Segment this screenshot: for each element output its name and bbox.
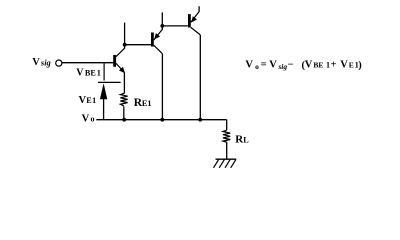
- svg-text:+: +: [331, 60, 337, 71]
- resistor RE1: [120, 73, 127, 120]
- wire Q1 collector to Q2 base: [125, 44, 152, 46]
- transistor Q3 (pnp): [188, 12, 200, 35]
- formula Vo = Vsig - (VBE1 + VE1): [245, 60, 362, 72]
- svg-text:V: V: [269, 60, 277, 71]
- svg-text:L: L: [243, 136, 249, 145]
- svg-text:sig: sig: [277, 62, 287, 71]
- svg-text:−: −: [288, 60, 294, 71]
- transistor Q1 (npn): [113, 48, 125, 73]
- ground: [214, 159, 237, 168]
- svg-text:=: =: [261, 60, 267, 71]
- junction RE1 / rail: [122, 118, 126, 122]
- svg-text:1: 1: [147, 99, 151, 108]
- junction Q1 collector / Q2 base: [123, 43, 127, 47]
- wire Q3 emitter riser: [198, 6, 200, 12]
- label Vsig: [32, 57, 51, 68]
- transistor Q2 (pnp): [151, 29, 162, 53]
- svg-text:E: E: [349, 61, 354, 70]
- junction Q2 emitter / Q3 base: [160, 24, 164, 28]
- VBE1 measure line: [103, 63, 105, 80]
- wire Q2 emitter to Q3 base: [162, 25, 188, 27]
- label Vo: [82, 113, 95, 124]
- junction Q3 collector / rail: [198, 118, 202, 122]
- svg-text:): ): [358, 60, 362, 71]
- svg-text:V: V: [76, 67, 84, 78]
- label RE1: [134, 97, 152, 109]
- output rail: [96, 119, 226, 121]
- label VE1: [79, 95, 97, 106]
- terminal Vsig: [56, 60, 62, 66]
- svg-text:BE: BE: [313, 61, 323, 70]
- svg-text:V: V: [82, 113, 90, 124]
- wire Q2 collector drop: [161, 54, 163, 120]
- svg-text:1: 1: [92, 96, 96, 105]
- label RL: [235, 134, 249, 146]
- svg-text:V: V: [245, 60, 253, 71]
- wire Q3 collector drop: [199, 35, 201, 120]
- VBE1 / VE1 separator line: [98, 81, 121, 83]
- junction Q2 collector / rail: [160, 118, 164, 122]
- svg-text:o: o: [91, 115, 95, 124]
- wire Q1 collector riser: [124, 23, 126, 49]
- svg-text:sig: sig: [40, 58, 52, 68]
- svg-text:V: V: [32, 57, 40, 68]
- label VBE1: [76, 67, 101, 78]
- svg-text:o: o: [255, 62, 259, 71]
- svg-text:BE: BE: [85, 68, 96, 77]
- resistor RL: [223, 120, 230, 159]
- svg-text:V: V: [305, 60, 313, 71]
- svg-text:V: V: [340, 60, 348, 71]
- wire Q2 emitter riser: [161, 12, 163, 30]
- VE1 arrow: [100, 83, 107, 119]
- wire Vsig to Q1 base: [62, 62, 113, 64]
- svg-text:1: 1: [97, 68, 101, 77]
- svg-text:1: 1: [326, 61, 330, 70]
